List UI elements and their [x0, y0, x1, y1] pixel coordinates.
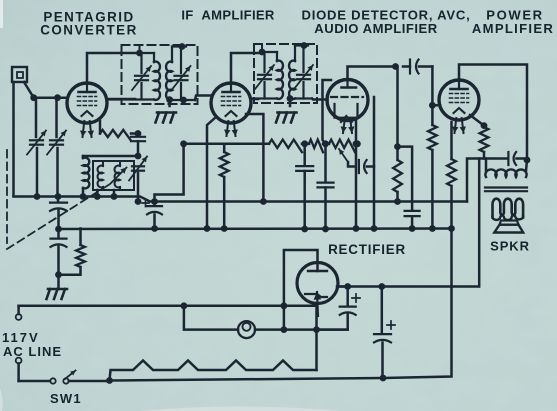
- trimmer capacitor osc: [132, 165, 144, 167]
- wire L2 riser: [467, 159, 507, 202]
- wire osc coil top: [83, 155, 138, 158]
- IF transformer T2 shield: [254, 44, 317, 103]
- bus B-minus bottom: [110, 229, 452, 381]
- svg-text:AMPLIFIER: AMPLIFIER: [472, 21, 554, 36]
- resistor R2 osc: [79, 229, 82, 246]
- pilot lamp: [238, 321, 255, 338]
- svg-text:SW1: SW1: [50, 391, 82, 406]
- wire AC line 2: [19, 380, 50, 383]
- node C4 bottom: [151, 225, 158, 232]
- node R7 bottom: [429, 225, 436, 232]
- svg-text:IF AMPLIFIER: IF AMPLIFIER: [181, 8, 275, 23]
- wire AVC bend: [155, 144, 184, 202]
- resistor R6 plate load: [396, 67, 399, 161]
- resistor R3 AVC: [269, 140, 302, 153]
- gang arrow: [110, 168, 127, 185]
- terminal AC 1: [17, 306, 20, 314]
- wire to V4 grid: [431, 67, 434, 106]
- node filament node: [313, 326, 320, 333]
- tube V4 power amplifier: [439, 80, 479, 120]
- heater V1: [83, 121, 85, 137]
- wire T2 secondary bottom rail: [295, 97, 312, 99]
- variable capacitor C1b: [50, 139, 63, 141]
- tube V3 detector: [327, 80, 368, 121]
- node T1 secondary top: [179, 43, 186, 50]
- wire to ground: [57, 275, 60, 289]
- capacitor C12 bypass: [324, 144, 327, 181]
- wire filament to heater string: [315, 330, 318, 370]
- heater V5 arrow: [317, 292, 318, 316]
- wire T2 to diode: [312, 99, 328, 100]
- coil L2 oscillator: [82, 156, 85, 158]
- tube V1 pentagrid converter: [67, 83, 107, 123]
- capacitor C8 tone: [507, 152, 509, 165]
- node R1 end: [135, 130, 142, 137]
- node C1b ground: [55, 193, 62, 200]
- bus B-minus L3: [59, 227, 452, 230]
- capacitor C6 coupling: [409, 60, 411, 74]
- node T1 sec bottom: [180, 97, 187, 104]
- heater V4: [455, 118, 457, 133]
- trimmer capacitor T2b: [302, 46, 304, 73]
- node OT right: [524, 157, 531, 164]
- node screen bypass: [260, 198, 267, 205]
- node C10 bottom: [380, 375, 387, 382]
- trimmer capacitor T1b: [180, 47, 182, 74]
- resistor R7 grid: [431, 105, 434, 125]
- wire V1 plate to T1: [107, 98, 136, 101]
- node volume top: [354, 140, 361, 147]
- node RF grid junction: [54, 94, 61, 101]
- wire T1 primary rail: [140, 52, 155, 54]
- resistor R8 screen: [450, 122, 453, 159]
- wire V4 cathode: [470, 115, 484, 126]
- node R5 bottom: [221, 225, 228, 232]
- wire V4 plate top: [459, 65, 527, 161]
- coil T2 secondary: [294, 46, 296, 62]
- loop antenna: [12, 67, 27, 82]
- wire volume wiper: [339, 149, 348, 162]
- resistor R4a AVC: [309, 140, 323, 153]
- node det cathode tap: [353, 140, 360, 147]
- wire T2 primary bottom rail: [251, 97, 278, 99]
- node osc box lead A: [94, 193, 101, 200]
- svg-text:AC LINE: AC LINE: [3, 344, 62, 359]
- speaker SPKR: [493, 199, 524, 218]
- capacitor C7: [405, 210, 420, 212]
- ground T1: [157, 111, 176, 114]
- node C3 bottom: [55, 271, 62, 278]
- node AVC junction: [180, 140, 187, 147]
- diode plate V3: [335, 104, 358, 118]
- wire T1 ground stub: [168, 100, 171, 106]
- wire diode load: [323, 80, 332, 144]
- wire C1a bottom: [36, 148, 39, 197]
- wire padder to bus: [57, 211, 60, 229]
- oscillator transformer box: [93, 161, 134, 190]
- node AVC bypass 1: [301, 140, 308, 147]
- wire C1b bottom: [56, 148, 59, 197]
- ground osc: [48, 288, 67, 291]
- wire tap to C7: [398, 147, 413, 209]
- wire det grid drop: [373, 97, 376, 229]
- coil osc A: [102, 161, 104, 166]
- wire V2 grid return: [207, 117, 216, 229]
- capacitor C10 filter: [381, 287, 384, 333]
- coil T1 primary: [153, 53, 155, 62]
- wire C1b top: [55, 98, 58, 137]
- wire V5 plate feed: [284, 250, 318, 330]
- switch SW1: [50, 378, 55, 383]
- wire V2 top to T2: [231, 53, 262, 83]
- node T1 primary top: [136, 50, 143, 57]
- wire osc box leads: [96, 190, 99, 197]
- capacitor C9 filter: [346, 287, 349, 306]
- resistor R4b volume: [329, 140, 355, 153]
- wire V2 plate to T2: [251, 98, 259, 101]
- node R6 tap: [394, 143, 401, 150]
- node C7 bottom: [409, 225, 416, 232]
- terminal AC 2: [16, 358, 22, 364]
- ground T2: [278, 111, 297, 114]
- heater V3: [343, 119, 345, 133]
- heater string: [110, 361, 317, 381]
- wire T1 to V2 grid: [195, 96, 212, 101]
- capacitor padder: [57, 197, 60, 202]
- wire antenna to V1 grid: [34, 96, 68, 99]
- capacitor C4 electrolytic: [153, 202, 156, 206]
- wire T2 ground stub: [289, 99, 292, 107]
- node detector out: [322, 140, 329, 147]
- svg-text:RECTIFIER: RECTIFIER: [328, 242, 406, 257]
- wire V1 top to T1: [87, 53, 139, 83]
- wire C1a top: [35, 98, 38, 137]
- transformer T3 primary: [485, 159, 488, 172]
- capacitor C5 coupling: [358, 160, 360, 173]
- node plate drop lamp: [281, 326, 288, 333]
- node V4 cathode: [481, 122, 488, 129]
- gang dashed link: [6, 150, 8, 243]
- wire V4 grid: [432, 104, 440, 107]
- node AC lamp tap: [181, 302, 188, 309]
- node osc on bus: [135, 198, 142, 205]
- node plate node: [392, 63, 399, 70]
- node T2 secondary top: [301, 42, 308, 49]
- node L2 bypass: [151, 198, 158, 205]
- svg-text:SPKR: SPKR: [490, 239, 530, 254]
- bus AVC return L1: [14, 197, 468, 202]
- bus AVC line: [184, 143, 269, 146]
- tube V5 rectifier: [297, 263, 338, 304]
- wire det cathode: [355, 120, 358, 229]
- capacitor C11 AVC bypass: [303, 144, 306, 164]
- wire volume pot: [323, 143, 329, 146]
- resistor R5 IF cathode: [223, 144, 226, 152]
- node C1a ground: [34, 193, 41, 200]
- coil T1 secondary: [171, 47, 173, 63]
- tube V2 IF amplifier: [211, 83, 251, 123]
- wire T1 secondary bottom rail: [172, 99, 195, 101]
- wire V2 screen bypass: [246, 114, 263, 202]
- svg-text:AUDIO AMPLIFIER: AUDIO AMPLIFIER: [314, 21, 437, 36]
- wire lamp drop: [184, 306, 238, 330]
- trimmer capacitor T1a: [140, 53, 142, 73]
- node det grid bottom: [371, 225, 378, 232]
- wire V3 plate up: [348, 67, 396, 80]
- coil osc B: [119, 161, 121, 166]
- node R8 bottom: [448, 225, 455, 232]
- resistor R1 osc grid leak: [99, 121, 102, 134]
- node cap C9 top: [344, 283, 351, 290]
- wire T1 primary bottom rail: [107, 98, 155, 100]
- node L2 bottom: [80, 193, 87, 200]
- wire AVC mid: [302, 143, 309, 146]
- node C11 bottom: [301, 226, 308, 233]
- capacitor C3: [57, 229, 60, 237]
- node T1 bottom: [166, 96, 173, 103]
- node heater tap: [106, 377, 113, 384]
- node osc feed: [135, 153, 142, 160]
- node V4 grid: [429, 102, 436, 109]
- wire AC line 1: [19, 305, 317, 308]
- node padder bus: [55, 226, 62, 233]
- coil T2 primary: [276, 52, 278, 61]
- node V2 return: [204, 225, 211, 232]
- node R6 bottom: [394, 198, 401, 205]
- svg-text:117V: 117V: [2, 330, 40, 345]
- node plate drop AC: [281, 302, 288, 309]
- wire lamp line: [255, 328, 348, 331]
- trimmer capacitor T2a: [263, 52, 265, 72]
- node T2 primary top: [259, 49, 266, 56]
- resistor R9 cathode: [480, 127, 489, 152]
- transformer T3 core: [485, 186, 527, 188]
- wire B-plus to OT: [338, 159, 479, 287]
- node cap C10 top: [378, 283, 385, 290]
- wire filament up: [315, 304, 318, 330]
- wire B-plus out: [337, 285, 348, 288]
- capacitor C2 osc grid: [131, 136, 145, 138]
- heater V2: [227, 121, 229, 136]
- node det cathode bus: [353, 225, 360, 232]
- node diode load bottom: [322, 226, 329, 233]
- IF transformer T1 shield: [122, 45, 198, 104]
- variable capacitor C1a: [30, 139, 43, 141]
- node antenna junction: [30, 94, 37, 101]
- svg-text:CONVERTER: CONVERTER: [40, 23, 138, 38]
- node osc box lead B: [111, 193, 118, 200]
- node T2 bottom: [287, 95, 294, 102]
- wire T2 primary rail: [262, 51, 277, 53]
